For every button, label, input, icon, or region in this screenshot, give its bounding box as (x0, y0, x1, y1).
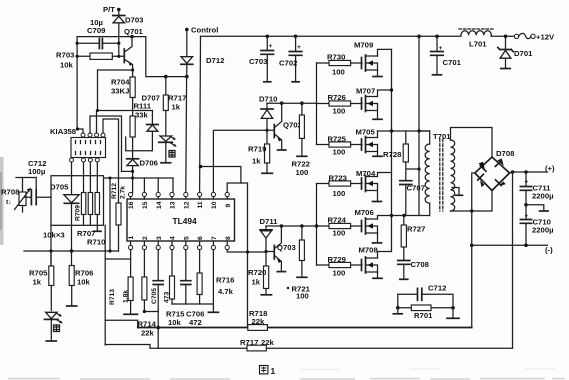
svg-text:1k: 1k (33, 278, 42, 287)
svg-text:15: 15 (142, 201, 149, 209)
svg-text:100: 100 (332, 68, 345, 77)
svg-text:10: 10 (211, 201, 218, 209)
svg-text:100: 100 (333, 107, 346, 116)
svg-text:R704: R704 (111, 78, 130, 87)
svg-text:R720: R720 (248, 268, 266, 277)
svg-text:16: 16 (128, 201, 135, 209)
svg-text:+: + (269, 43, 273, 50)
svg-text:3: 3 (156, 236, 163, 240)
svg-text:R717: R717 (168, 94, 186, 103)
svg-text:D710: D710 (259, 95, 277, 104)
svg-text:6: 6 (197, 236, 204, 240)
svg-text:R724: R724 (328, 216, 347, 225)
svg-text:R709: R709 (75, 205, 82, 221)
svg-text:L701: L701 (469, 40, 487, 49)
svg-text:D711: D711 (260, 217, 279, 226)
svg-text:R701: R701 (414, 311, 433, 320)
svg-text:C701: C701 (443, 58, 462, 67)
svg-text:D707: D707 (142, 94, 160, 103)
svg-text:4.7k: 4.7k (218, 287, 234, 296)
svg-text:472: 472 (189, 318, 202, 327)
svg-text:+: + (525, 179, 529, 186)
svg-text:t↓: t↓ (6, 199, 12, 206)
svg-text:C712: C712 (428, 284, 446, 293)
svg-text:33k: 33k (135, 110, 149, 119)
svg-text:C705: C705 (151, 288, 158, 304)
svg-text:C709: C709 (87, 26, 105, 35)
svg-text:C708: C708 (411, 260, 430, 269)
svg-text:100: 100 (333, 229, 346, 238)
svg-text:R725: R725 (328, 135, 347, 144)
svg-text:R716: R716 (216, 276, 234, 285)
svg-text:5: 5 (184, 236, 191, 240)
svg-text:2200µ: 2200µ (532, 192, 554, 201)
svg-text:D703: D703 (125, 16, 143, 25)
svg-text:10k×3: 10k×3 (43, 231, 65, 240)
svg-text:22k: 22k (261, 338, 275, 347)
svg-text:12: 12 (184, 201, 191, 209)
svg-text:33KJ: 33KJ (111, 86, 129, 95)
svg-text:2: 2 (142, 236, 149, 240)
svg-text:R703: R703 (56, 51, 74, 60)
svg-text:22k: 22k (252, 317, 266, 326)
svg-text:1k: 1k (252, 278, 261, 287)
svg-text:R111: R111 (134, 102, 152, 111)
svg-text:1k: 1k (252, 157, 261, 166)
svg-text:(+): (+) (545, 164, 555, 173)
svg-text:+: + (297, 44, 301, 51)
svg-text:100µ: 100µ (28, 167, 45, 176)
svg-text:100: 100 (296, 292, 309, 301)
svg-text:R706: R706 (75, 269, 93, 278)
svg-text:M707: M707 (356, 87, 375, 96)
svg-text:R705: R705 (29, 269, 48, 278)
svg-text:10k: 10k (168, 318, 182, 327)
svg-text:100: 100 (333, 269, 346, 278)
svg-text:R730: R730 (327, 53, 345, 62)
svg-text:D706: D706 (140, 158, 158, 167)
svg-text:100: 100 (333, 189, 346, 198)
svg-text:(-): (-) (545, 246, 553, 255)
svg-text:TL494: TL494 (173, 216, 198, 226)
svg-text:D712: D712 (206, 56, 224, 65)
svg-text:M705: M705 (356, 128, 376, 137)
svg-text:P/T: P/T (103, 5, 115, 14)
svg-text:9: 9 (225, 204, 232, 208)
svg-text:1: 1 (128, 236, 135, 240)
svg-text:R717: R717 (240, 338, 258, 347)
svg-text:M709: M709 (354, 41, 373, 50)
svg-text:2.7k: 2.7k (120, 186, 127, 199)
svg-text:+12V: +12V (536, 33, 555, 42)
svg-text:R726: R726 (328, 93, 346, 102)
svg-text:10k: 10k (77, 278, 91, 287)
svg-text:R727: R727 (407, 225, 425, 234)
svg-text:R723: R723 (329, 174, 347, 183)
svg-text:R728: R728 (383, 150, 402, 159)
svg-text:C707: C707 (407, 184, 425, 193)
svg-text:7: 7 (211, 236, 218, 240)
svg-text:4: 4 (170, 236, 177, 240)
svg-text:R708: R708 (1, 188, 20, 197)
svg-text:R712: R712 (111, 183, 118, 199)
svg-text:M706: M706 (355, 208, 374, 217)
svg-text:1: 1 (271, 366, 276, 376)
svg-text:R729: R729 (328, 255, 346, 264)
svg-text:13: 13 (170, 201, 177, 209)
svg-text:M708: M708 (359, 246, 379, 255)
svg-text:D705: D705 (50, 183, 69, 192)
svg-text:R713: R713 (109, 289, 116, 305)
svg-text:T701: T701 (433, 132, 451, 141)
svg-text:KIA358: KIA358 (50, 127, 77, 136)
svg-text:Q701: Q701 (124, 27, 144, 36)
svg-text:8: 8 (225, 236, 232, 240)
svg-text:10k: 10k (60, 61, 74, 70)
svg-text:C702: C702 (279, 59, 297, 68)
svg-text:R710: R710 (87, 238, 105, 247)
svg-text:14: 14 (156, 201, 163, 209)
svg-text:2200µ: 2200µ (532, 226, 554, 235)
svg-text:C703: C703 (249, 57, 267, 66)
svg-text:D708: D708 (496, 149, 515, 158)
svg-text:1k: 1k (172, 103, 181, 112)
svg-text:11: 11 (197, 201, 204, 208)
svg-text:D701: D701 (514, 49, 533, 58)
svg-text:22k: 22k (141, 329, 155, 338)
svg-text:R719: R719 (248, 145, 266, 154)
svg-text:100: 100 (333, 148, 346, 157)
svg-text:100: 100 (296, 168, 309, 177)
svg-text:Q703: Q703 (277, 243, 296, 252)
svg-text:Control: Control (191, 26, 218, 35)
